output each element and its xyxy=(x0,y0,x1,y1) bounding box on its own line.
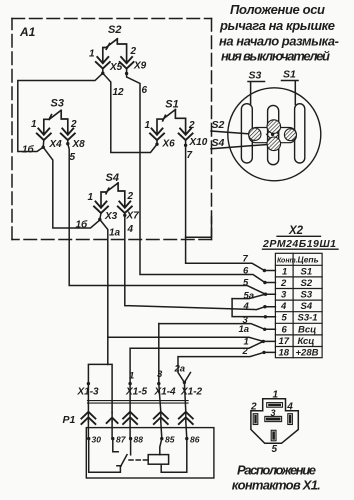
svg-text:85: 85 xyxy=(165,434,175,444)
svg-text:5: 5 xyxy=(70,152,76,163)
svg-text:2: 2 xyxy=(130,46,137,57)
svg-text:2: 2 xyxy=(250,402,257,413)
svg-text:30: 30 xyxy=(92,434,102,444)
svg-text:88: 88 xyxy=(134,434,144,444)
svg-text:S4: S4 xyxy=(106,172,119,184)
svg-text:ния выключателей: ния выключателей xyxy=(221,49,330,64)
svg-text:Ксц: Ксц xyxy=(298,336,315,347)
svg-text:18: 18 xyxy=(279,348,290,359)
svg-text:2: 2 xyxy=(188,120,195,131)
svg-text:Х7: Х7 xyxy=(126,211,140,222)
svg-text:12: 12 xyxy=(113,87,125,98)
svg-text:Х6: Х6 xyxy=(162,139,176,150)
svg-text:S1: S1 xyxy=(283,69,296,81)
svg-text:S3: S3 xyxy=(51,98,64,110)
svg-text:1: 1 xyxy=(282,267,287,278)
svg-text:5: 5 xyxy=(282,313,288,324)
svg-text:контактов Х1.: контактов Х1. xyxy=(232,478,321,493)
svg-text:S3: S3 xyxy=(301,290,313,301)
svg-text:1: 1 xyxy=(273,390,279,401)
svg-text:S2: S2 xyxy=(301,278,313,289)
svg-text:6: 6 xyxy=(243,266,249,277)
svg-text:1б: 1б xyxy=(76,219,89,231)
svg-text:Х9: Х9 xyxy=(133,61,147,72)
svg-text:рычага на крышке: рычага на крышке xyxy=(219,18,335,33)
svg-text:S1: S1 xyxy=(165,99,178,111)
svg-text:2: 2 xyxy=(280,278,287,289)
svg-text:А1: А1 xyxy=(19,25,36,39)
svg-text:7: 7 xyxy=(187,150,193,161)
svg-text:+28В: +28В xyxy=(296,348,319,359)
svg-text:S3: S3 xyxy=(249,70,262,82)
svg-text:2: 2 xyxy=(242,346,249,357)
svg-text:S2: S2 xyxy=(212,119,225,131)
svg-text:Цепь: Цепь xyxy=(298,255,319,265)
svg-text:1: 1 xyxy=(88,192,94,203)
svg-text:Х4: Х4 xyxy=(49,139,63,150)
svg-text:17: 17 xyxy=(279,336,290,347)
svg-text:Х5: Х5 xyxy=(109,62,123,73)
svg-text:2а: 2а xyxy=(174,364,186,375)
svg-text:3: 3 xyxy=(157,369,163,380)
svg-text:Х3: Х3 xyxy=(104,211,118,222)
svg-text:2: 2 xyxy=(127,191,134,202)
svg-text:Х1-4: Х1-4 xyxy=(154,387,177,398)
svg-text:4: 4 xyxy=(127,224,134,235)
svg-text:Положение оси: Положение оси xyxy=(230,2,325,17)
svg-text:Х8: Х8 xyxy=(72,139,86,150)
svg-text:7: 7 xyxy=(243,254,249,265)
svg-text:3: 3 xyxy=(271,408,276,418)
svg-text:87: 87 xyxy=(116,434,127,444)
svg-text:Х1-2: Х1-2 xyxy=(180,387,203,398)
svg-text:4: 4 xyxy=(286,402,293,413)
svg-text:1: 1 xyxy=(31,119,37,130)
svg-text:S4: S4 xyxy=(212,137,225,149)
svg-text:6: 6 xyxy=(282,324,288,335)
svg-text:S4: S4 xyxy=(301,301,313,312)
svg-text:5а: 5а xyxy=(244,290,255,301)
svg-text:5: 5 xyxy=(243,278,249,289)
svg-text:6: 6 xyxy=(142,85,148,96)
svg-text:Расположение: Расположение xyxy=(237,463,316,478)
svg-text:S3-1: S3-1 xyxy=(298,313,318,324)
svg-text:1а: 1а xyxy=(239,324,250,335)
svg-text:1: 1 xyxy=(129,371,134,382)
svg-text:Х10: Х10 xyxy=(189,137,208,148)
svg-text:S1: S1 xyxy=(301,267,313,278)
svg-text:на начало размыка-: на начало размыка- xyxy=(219,34,339,49)
svg-text:Р1: Р1 xyxy=(63,414,76,426)
svg-text:1: 1 xyxy=(145,120,151,131)
svg-text:2РМ24Б19Ш1: 2РМ24Б19Ш1 xyxy=(262,238,336,250)
svg-text:1а: 1а xyxy=(109,228,121,239)
svg-text:Всц: Всц xyxy=(298,324,316,335)
svg-text:1б: 1б xyxy=(22,144,35,156)
svg-text:4: 4 xyxy=(243,301,250,312)
svg-text:Конт.: Конт. xyxy=(277,258,298,265)
svg-text:Х1-5: Х1-5 xyxy=(125,387,148,398)
svg-text:S2: S2 xyxy=(108,24,121,36)
svg-text:2: 2 xyxy=(70,119,77,130)
svg-text:Х2: Х2 xyxy=(288,225,304,237)
svg-text:1: 1 xyxy=(89,49,95,60)
svg-text:Х1-3: Х1-3 xyxy=(77,387,100,398)
svg-text:5: 5 xyxy=(272,444,278,455)
svg-text:86: 86 xyxy=(190,434,200,444)
svg-text:4: 4 xyxy=(280,301,287,312)
svg-text:3: 3 xyxy=(281,290,287,301)
